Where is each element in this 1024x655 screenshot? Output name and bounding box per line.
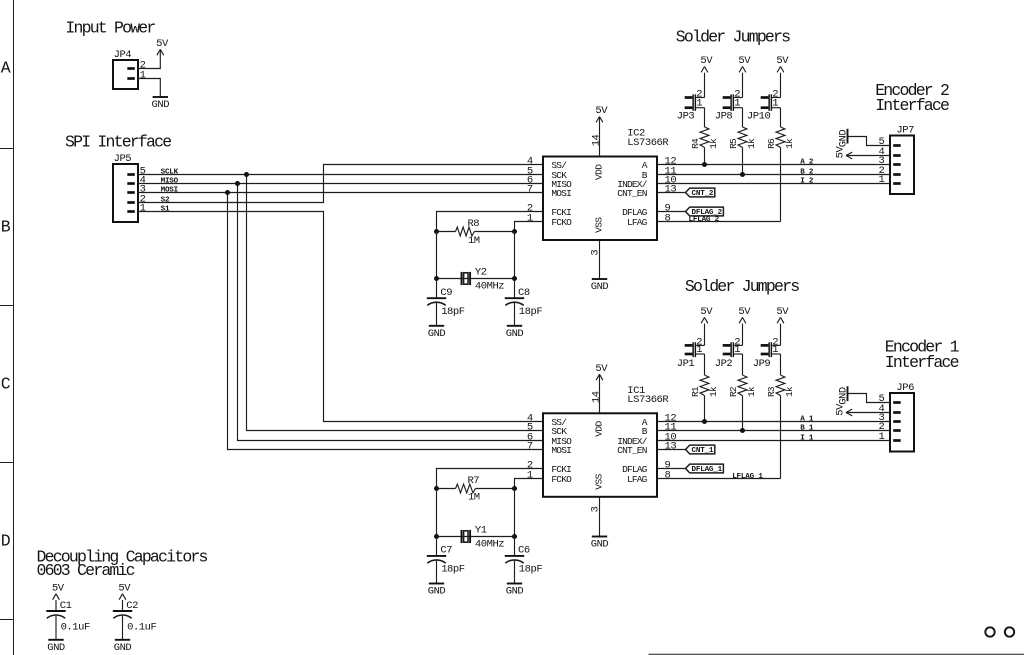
svg-text:SPI Interface: SPI Interface <box>65 132 171 151</box>
svg-text:40MHz: 40MHz <box>475 281 504 293</box>
resistor R5 1k <box>728 127 757 149</box>
svg-text:18pF: 18pF <box>519 564 543 576</box>
svg-text:5V: 5V <box>738 55 751 67</box>
svg-text:JP3: JP3 <box>677 111 695 123</box>
power 5V at JP7 (left arrow) <box>835 146 890 159</box>
svg-text:Solder Jumpers: Solder Jumpers <box>676 27 790 46</box>
svg-text:1: 1 <box>140 69 146 81</box>
connector JP6 <box>879 382 915 452</box>
wire C8 to GND <box>514 303 516 326</box>
wire LFLAG_2 net (IC2.8 to R6) <box>657 221 781 223</box>
svg-text:GND: GND <box>114 642 132 654</box>
wire R3 to LFLAG_1 <box>780 396 782 479</box>
svg-text:8: 8 <box>665 212 671 224</box>
wire SCLK branch to IC1 SCK <box>247 175 544 431</box>
wire 5V to JP3 pin2 <box>704 73 706 98</box>
svg-text:1k: 1k <box>708 138 719 149</box>
net label A_2 <box>800 159 814 167</box>
resistor R2 1k <box>728 375 757 397</box>
svg-text:5V: 5V <box>118 582 131 594</box>
svg-text:VSS: VSS <box>593 217 604 233</box>
wire to C9 <box>436 279 438 299</box>
wire right node down to Y2 <box>514 232 516 279</box>
svg-text:LFLAG_1: LFLAG_1 <box>732 473 763 481</box>
svg-text:R2: R2 <box>728 386 739 397</box>
power 5V at JP6 (left arrow) <box>835 403 890 416</box>
svg-text:13: 13 <box>665 440 677 452</box>
label JP9 <box>753 358 771 370</box>
mounting hole H2 <box>1005 627 1014 636</box>
section title Decoupling Capacitors <box>37 547 208 580</box>
svg-text:FCKO: FCKO <box>551 217 572 228</box>
svg-text:LFAG: LFAG <box>627 217 648 228</box>
wire right node down to Y1 <box>514 489 516 537</box>
wire 5V to JP8 pin2 <box>742 73 744 98</box>
junction R7 left <box>434 486 439 491</box>
net label SCLK <box>161 169 179 177</box>
svg-text:1: 1 <box>734 344 740 356</box>
net label S2 <box>161 197 170 205</box>
svg-text:5V: 5V <box>776 306 789 318</box>
wire C1 to GND <box>55 616 57 640</box>
svg-text:14: 14 <box>590 391 602 403</box>
ground at C7 <box>428 584 446 598</box>
svg-text:R8: R8 <box>467 218 479 230</box>
svg-text:C9: C9 <box>440 287 452 299</box>
ground at C1 <box>47 640 65 654</box>
net flag CNT_2 <box>686 188 715 198</box>
wire IC1 FCKI pin2 <box>437 469 544 489</box>
net label LFLAG_1 <box>732 473 763 481</box>
svg-text:7: 7 <box>527 440 533 452</box>
solder jumper JP10 <box>761 88 781 110</box>
svg-text:GND: GND <box>428 586 446 598</box>
connector JP5 <box>113 153 146 222</box>
sheet border tick row C/D <box>0 462 14 464</box>
svg-text:1: 1 <box>734 98 740 110</box>
section title Input Power <box>65 18 155 37</box>
row label D <box>1 531 11 550</box>
wire Y2 row <box>437 278 515 280</box>
connector JP4 <box>113 49 146 89</box>
svg-text:1: 1 <box>140 202 146 214</box>
wire B_1 net (IC1.11 to JP6.2) <box>657 430 890 432</box>
ground at IC2 <box>591 279 609 293</box>
svg-text:LFLAG_2: LFLAG_2 <box>689 216 720 224</box>
row label A <box>1 59 11 78</box>
power 5V at C2 <box>118 582 131 599</box>
wire Y1 row <box>437 536 515 538</box>
junction R2/B_1 <box>740 428 745 433</box>
wire IC1 FCKO pin1 <box>515 479 544 489</box>
power 5V at JP4 <box>156 38 169 55</box>
net flag CNT_1 <box>686 445 715 455</box>
svg-text:R5: R5 <box>728 138 739 149</box>
power 5V at JP9 <box>776 306 789 323</box>
net label LFLAG_2 <box>689 216 720 224</box>
label JP8 <box>715 111 733 123</box>
svg-text:Interface: Interface <box>875 96 949 115</box>
wire IC1 DFLAG pin9 <box>657 468 686 470</box>
power 5V at IC1 <box>595 363 608 380</box>
svg-text:5V: 5V <box>835 403 847 416</box>
svg-text:18pF: 18pF <box>441 564 465 576</box>
power 5V at JP1 <box>700 306 713 323</box>
net label B_2 <box>800 169 814 177</box>
section title SPI Interface <box>65 132 171 151</box>
wire I_1 net (IC1.10 to JP6.1) <box>657 440 890 442</box>
svg-text:SCLK: SCLK <box>161 169 179 177</box>
svg-text:GND: GND <box>506 328 524 340</box>
ground at JP4 <box>152 97 170 111</box>
wire R6 to LFLAG_2 <box>780 148 782 222</box>
svg-text:5V: 5V <box>156 38 169 50</box>
svg-text:5V: 5V <box>776 55 789 67</box>
solder jumper JP3 <box>685 88 705 110</box>
svg-text:GND: GND <box>837 387 849 405</box>
wire C9 to GND <box>436 303 438 326</box>
net label B_1 <box>800 425 814 433</box>
svg-text:5V: 5V <box>738 306 751 318</box>
section title Encoder 1 Interface <box>885 338 960 372</box>
svg-text:C6: C6 <box>518 545 530 557</box>
svg-text:JP8: JP8 <box>715 111 733 123</box>
wire 5V to JP2 pin2 <box>742 324 744 346</box>
junction R8 left <box>434 229 439 234</box>
net flag DFLAG_2 <box>686 207 724 217</box>
ground at C2 <box>114 640 132 654</box>
svg-text:C2: C2 <box>126 600 138 612</box>
resistor R7 1M <box>437 475 515 504</box>
wire MISO branch to IC1 MISO <box>238 184 544 441</box>
svg-text:R4: R4 <box>690 138 701 149</box>
op-amp IC2 LS7366R symbol <box>527 134 677 255</box>
power 5V at JP2 <box>738 306 751 323</box>
svg-text:5V: 5V <box>595 105 608 117</box>
svg-text:0603 Ceramic: 0603 Ceramic <box>37 561 135 580</box>
svg-text:1k: 1k <box>784 138 795 149</box>
svg-text:1: 1 <box>696 344 702 356</box>
svg-text:JP1: JP1 <box>677 358 695 370</box>
wire to C8 <box>514 279 516 299</box>
svg-text:Interface: Interface <box>885 353 959 372</box>
svg-text:1k: 1k <box>784 386 795 397</box>
wire left node down to Y1 <box>436 489 438 537</box>
svg-text:C8: C8 <box>518 287 530 299</box>
power 5V at JP8 <box>738 55 751 72</box>
wire IC1 CNT_EN pin13 <box>657 449 686 451</box>
solder jumper JP9 <box>761 336 781 357</box>
ground at C8 <box>506 326 524 340</box>
wire 5V to C2 <box>122 600 124 611</box>
capacitor C2 0.1uF <box>113 600 157 634</box>
wire C7 to GND <box>436 561 438 584</box>
svg-text:JP7: JP7 <box>896 125 914 137</box>
svg-text:C7: C7 <box>440 545 452 557</box>
capacitor C1 0.1uF <box>46 600 90 634</box>
svg-text:GND: GND <box>47 642 65 654</box>
wire IC2 FCKO pin1 <box>515 222 544 232</box>
wire IC1 VDD pin14 to 5V <box>599 374 601 413</box>
junction Y1 left <box>434 534 439 539</box>
sheet border tick row A/B <box>0 148 14 150</box>
svg-text:5V: 5V <box>700 306 713 318</box>
label JP3 <box>677 111 695 123</box>
capacitor C6 18pF <box>505 545 543 576</box>
wire 5V to C1 <box>55 600 57 611</box>
mounting hole H1 <box>985 627 994 636</box>
solder jumper JP2 <box>723 336 743 357</box>
svg-text:1: 1 <box>879 431 885 443</box>
svg-text:0.1uF: 0.1uF <box>127 622 156 634</box>
svg-text:MISO: MISO <box>161 178 179 186</box>
wire R1 to A_1 <box>704 396 706 422</box>
wire 5V to JP10 pin2 <box>780 73 782 98</box>
svg-text:1: 1 <box>879 174 885 186</box>
svg-text:8: 8 <box>665 469 671 481</box>
svg-text:GND: GND <box>506 586 524 598</box>
label JP1 <box>677 358 695 370</box>
crystal Y1 40MHz <box>462 524 505 550</box>
svg-text:A_2: A_2 <box>800 159 814 167</box>
svg-text:GND: GND <box>152 99 170 111</box>
svg-text:18pF: 18pF <box>441 306 465 318</box>
svg-text:R1: R1 <box>690 386 701 397</box>
svg-text:MOSI: MOSI <box>551 445 571 456</box>
wire A_1 net (IC1.12 to JP6.3) <box>657 421 890 423</box>
svg-text:B_2: B_2 <box>800 169 814 177</box>
wire R5 to B_2 <box>742 148 744 175</box>
ground at JP7 (rotated) <box>837 129 849 148</box>
wire B_2 net (IC2.11 to JP7.2) <box>657 174 890 176</box>
wire IC1 VSS pin3 to GND <box>599 497 601 537</box>
svg-text:40MHz: 40MHz <box>475 538 504 550</box>
svg-text:14: 14 <box>590 134 602 146</box>
svg-text:FCKO: FCKO <box>551 474 572 485</box>
svg-text:5V: 5V <box>595 363 608 375</box>
wire 5V to JP1 pin2 <box>704 324 706 346</box>
sheet border vertical line <box>13 0 15 655</box>
net flag DFLAG_1 <box>686 464 724 474</box>
capacitor C7 18pF <box>427 545 465 576</box>
ground at C9 <box>428 326 446 340</box>
svg-text:1k: 1k <box>746 138 757 149</box>
resistor R4 1k <box>690 127 719 149</box>
wire IC2 VDD pin14 to 5V <box>599 117 601 157</box>
wire R2 to B_1 <box>742 396 744 431</box>
wire JP9 pin1 to R3 <box>780 354 782 375</box>
svg-text:1k: 1k <box>708 386 719 397</box>
row label B <box>1 217 11 236</box>
svg-text:VSS: VSS <box>593 473 604 489</box>
wire SCLK net (JP5.5 to IC2 SCK) <box>138 174 543 176</box>
svg-text:18pF: 18pF <box>519 306 543 318</box>
net label S1 <box>161 206 170 214</box>
svg-text:R3: R3 <box>766 386 777 397</box>
junction MOSI branch <box>225 190 230 195</box>
capacitor C9 18pF <box>427 287 465 318</box>
junction Y2 right <box>512 276 517 281</box>
svg-text:5V: 5V <box>700 55 713 67</box>
svg-text:13: 13 <box>665 183 677 195</box>
ground at C6 <box>506 584 524 598</box>
wire JP3 pin1 to R4 <box>704 108 706 127</box>
svg-text:1: 1 <box>772 344 778 356</box>
capacitor C8 18pF <box>505 287 543 318</box>
ground at JP6 (rotated) <box>837 386 849 405</box>
wire JP8 pin1 to R5 <box>742 108 744 127</box>
wire LFLAG_1 net (IC1.8 to R3) <box>657 478 781 480</box>
svg-text:S1: S1 <box>161 206 170 214</box>
junction Y2 left <box>434 276 439 281</box>
wire IC2 VSS pin3 to GND <box>599 240 601 279</box>
row label C <box>1 374 11 393</box>
svg-text:5V: 5V <box>835 146 847 159</box>
svg-text:1M: 1M <box>468 235 480 247</box>
power 5V at C1 <box>52 582 65 599</box>
wire I_2 net (IC2.10 to JP7.1) <box>657 183 890 185</box>
wire left node down to Y2 <box>436 232 438 279</box>
svg-text:CNT_2: CNT_2 <box>692 190 714 198</box>
resistor R6 1k <box>766 127 795 149</box>
label IC2 / LS7366R <box>627 128 669 149</box>
svg-text:JP9: JP9 <box>753 358 771 370</box>
svg-text:1: 1 <box>696 98 702 110</box>
svg-text:VDD: VDD <box>593 164 604 180</box>
net label MISO <box>161 178 179 186</box>
wire JP1 pin1 to R1 <box>704 354 706 375</box>
junction MISO branch <box>235 181 240 186</box>
label JP10 <box>747 111 771 123</box>
wire 5V to JP9 pin2 <box>780 324 782 346</box>
section title Encoder 2 Interface <box>875 81 949 115</box>
junction R4/A_2 <box>702 162 707 167</box>
resistor R3 1k <box>766 375 795 397</box>
svg-text:MOSI: MOSI <box>161 187 178 195</box>
svg-text:1: 1 <box>527 212 533 224</box>
junction R7 right <box>512 486 517 491</box>
svg-text:JP4: JP4 <box>114 49 132 61</box>
svg-text:GND: GND <box>837 130 849 148</box>
svg-text:DFLAG_1: DFLAG_1 <box>692 466 723 474</box>
resistor R1 1k <box>690 375 719 397</box>
wire R4 to A_2 <box>704 148 706 165</box>
junction SCLK branch <box>244 172 249 177</box>
wire JP10 pin1 to R6 <box>780 108 782 127</box>
svg-text:GND: GND <box>591 539 609 551</box>
wire to C6 <box>514 537 516 556</box>
wire MOSI branch to IC1 MOSI <box>228 193 544 450</box>
wire JP7 pin5 to GND <box>848 137 891 146</box>
svg-text:R6: R6 <box>766 138 777 149</box>
net label A_1 <box>800 416 814 424</box>
svg-text:A_1: A_1 <box>800 416 814 424</box>
svg-text:Input Power: Input Power <box>65 18 155 37</box>
svg-text:LS7366R: LS7366R <box>627 394 669 406</box>
svg-text:1M: 1M <box>468 492 480 504</box>
wire MOSI net (JP5.3 to IC2 MOSI) <box>138 192 543 194</box>
svg-text:LFAG: LFAG <box>627 474 648 485</box>
svg-text:Y2: Y2 <box>475 267 487 279</box>
svg-text:LS7366R: LS7366R <box>627 137 669 149</box>
wire C2 to GND <box>122 616 124 640</box>
label JP2 <box>715 358 733 370</box>
power 5V at JP10 <box>776 55 789 72</box>
svg-text:1: 1 <box>772 98 778 110</box>
net label I_1 <box>800 435 814 443</box>
svg-text:Solder Jumpers: Solder Jumpers <box>685 277 799 296</box>
wire IC2 DFLAG pin9 <box>657 211 686 213</box>
section title Solder Jumpers (encoder 2) <box>676 27 790 46</box>
title block top edge <box>647 650 1024 655</box>
sheet border tick below row D <box>0 619 14 621</box>
svg-text:MOSI: MOSI <box>551 188 571 199</box>
svg-text:GND: GND <box>591 281 609 293</box>
svg-text:0.1uF: 0.1uF <box>61 622 90 634</box>
junction Y1 right <box>512 534 517 539</box>
resistor R8 1M <box>437 218 515 247</box>
power 5V at IC2 <box>595 105 608 122</box>
wire S2 net (JP5.2 to IC2 SS/) <box>138 165 543 203</box>
svg-text:JP5: JP5 <box>114 153 132 165</box>
svg-text:JP6: JP6 <box>896 382 914 394</box>
svg-text:7: 7 <box>527 183 533 195</box>
wire IC2 CNT_EN pin13 <box>657 192 686 194</box>
svg-text:Y1: Y1 <box>475 524 487 536</box>
connector JP7 <box>879 125 915 195</box>
solder jumper JP8 <box>723 88 743 110</box>
svg-text:S2: S2 <box>161 197 170 205</box>
svg-text:C1: C1 <box>60 600 72 612</box>
svg-text:5V: 5V <box>52 582 65 594</box>
op-amp IC1 LS7366R symbol <box>527 391 677 512</box>
svg-text:CNT_EN: CNT_EN <box>617 188 647 199</box>
solder jumper JP1 <box>685 336 705 357</box>
svg-text:B_1: B_1 <box>800 425 814 433</box>
wire JP4 pin2 to 5V <box>138 49 160 68</box>
power 5V at JP3 <box>700 55 713 72</box>
net label I_2 <box>800 178 814 186</box>
wire IC2 FCKI pin2 <box>437 212 544 232</box>
svg-text:VDD: VDD <box>593 420 604 436</box>
wire JP6 pin5 to GND <box>848 394 891 403</box>
svg-text:CNT_EN: CNT_EN <box>617 445 647 456</box>
label IC1 / LS7366R <box>627 385 669 406</box>
sheet border tick row B/C <box>0 305 14 307</box>
svg-text:I_2: I_2 <box>800 178 814 186</box>
svg-text:JP10: JP10 <box>747 111 771 123</box>
ground at IC1 <box>591 537 609 551</box>
wire A_2 net (IC2.12 to JP7.3) <box>657 164 890 166</box>
wire C6 to GND <box>514 561 516 584</box>
svg-text:1: 1 <box>527 469 533 481</box>
wire S1 net (JP5.1 to IC1 SS/) <box>138 212 543 422</box>
svg-text:GND: GND <box>428 328 446 340</box>
svg-text:JP2: JP2 <box>715 358 733 370</box>
svg-text:R7: R7 <box>467 475 479 487</box>
junction R1/A_1 <box>702 419 707 424</box>
wire MISO net (JP5.4 to IC2 MISO) <box>138 183 543 185</box>
net label MOSI <box>161 187 178 195</box>
junction R5/B_2 <box>740 172 745 177</box>
wire to C7 <box>436 537 438 556</box>
junction R8 right <box>512 229 517 234</box>
svg-text:1k: 1k <box>746 386 757 397</box>
wire JP2 pin1 to R2 <box>742 354 744 375</box>
crystal Y2 40MHz <box>462 267 505 293</box>
section title Solder Jumpers (encoder 1) <box>685 277 799 296</box>
wire JP4 pin1 to GND <box>138 79 160 98</box>
